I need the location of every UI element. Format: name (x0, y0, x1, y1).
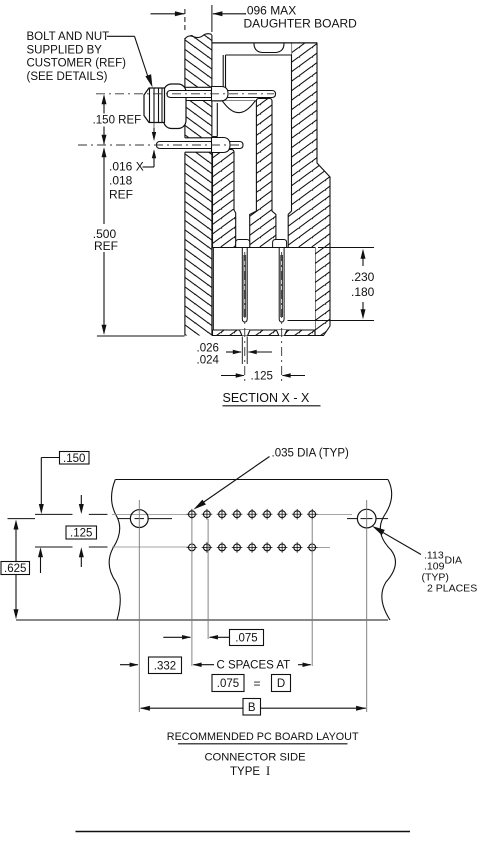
dimension .230 .180 (288, 248, 375, 321)
svg-text:=: = (254, 677, 261, 691)
pcb outline (16, 480, 395, 621)
pin tail 1 centerline (281, 252, 283, 381)
connector housing right wall (288, 43, 330, 336)
contact 1 retention foot (273, 240, 287, 248)
dimension .500 REF (93, 147, 185, 336)
svg-text:CUSTOMER (REF): CUSTOMER (REF) (27, 58, 127, 70)
svg-text:SECTION X - X: SECTION X - X (223, 391, 310, 405)
dimension .625 (1, 520, 30, 620)
svg-text:.024: .024 (197, 355, 220, 367)
dimension .016 x .018 REF (109, 128, 156, 202)
row 1 centerline (35, 513, 352, 515)
svg-text:.332: .332 (154, 660, 176, 672)
svg-text:CONNECTOR SIDE: CONNECTOR SIDE (204, 751, 305, 763)
caption RECOMMENDED PC BOARD LAYOUT (167, 731, 359, 744)
svg-text:.075: .075 (217, 678, 239, 690)
dimension .125 pin spacing (221, 371, 305, 383)
mounting hole centerline (8, 518, 389, 520)
dimension .125 rows (38, 495, 97, 573)
svg-text:RECOMMENDED PC BOARD LAYOUT: RECOMMENDED PC BOARD LAYOUT (167, 731, 359, 743)
caption TYPE I (230, 764, 270, 778)
svg-text:REF: REF (109, 188, 133, 202)
svg-text:.096 MAX: .096 MAX (244, 4, 297, 18)
dimension .332 and C SPACES AT (120, 657, 312, 674)
svg-text:REF: REF (94, 239, 118, 253)
contact spring dome (222, 101, 255, 113)
pin tail 2 centerline (244, 252, 246, 381)
connector housing front column (213, 149, 236, 247)
svg-text:.150 REF: .150 REF (93, 115, 142, 127)
dimension .075 hole pitch (163, 630, 263, 646)
svg-text:SUPPLIED BY: SUPPLIED BY (27, 44, 103, 56)
hole extension lines (192, 519, 312, 666)
svg-text:.018: .018 (109, 174, 133, 188)
connector housing top band (212, 43, 317, 95)
label .035 DIA (TYP) (194, 448, 350, 510)
svg-text:.016 X: .016 X (109, 160, 144, 174)
daughter board strip (184, 34, 213, 336)
svg-text:.035 DIA (TYP): .035 DIA (TYP) (272, 448, 350, 460)
svg-text:(SEE DETAILS): (SEE DETAILS) (27, 71, 108, 83)
svg-text:.150: .150 (63, 453, 85, 465)
label bolt and nut (27, 31, 153, 88)
bolt collar washer (164, 84, 186, 129)
svg-text:.230: .230 (351, 270, 375, 284)
mounting hole right (357, 500, 376, 712)
bottom border line (76, 831, 411, 833)
contact 2 pin tail (242, 248, 247, 323)
mounting hole left (130, 500, 148, 712)
dimension .150 REF (93, 94, 142, 144)
contact 2 horizontal pin (157, 142, 244, 149)
svg-text:2 PLACES: 2 PLACES (427, 583, 477, 595)
dimension .096 MAX DAUGHTER BOARD (151, 4, 358, 33)
contact holes row 2 (187, 542, 318, 553)
svg-text:D: D (277, 678, 285, 690)
svg-text:.125: .125 (70, 528, 92, 540)
contact 1 pin tail (279, 248, 284, 323)
svg-text:.625: .625 (4, 563, 26, 575)
svg-text:I: I (266, 764, 270, 778)
title SECTION X - X (223, 391, 321, 406)
svg-text:DAUGHTER BOARD: DAUGHTER BOARD (244, 17, 358, 31)
dimension .075 = D (212, 675, 291, 692)
svg-text:.026: .026 (197, 343, 219, 355)
contact 2 retention foot (236, 240, 250, 248)
contact 2 sleeve (212, 138, 231, 153)
svg-text:C SPACES AT: C SPACES AT (217, 660, 291, 672)
contact 2 centerline (78, 144, 241, 146)
svg-text:TYPE: TYPE (230, 766, 260, 778)
hex nut (144, 88, 165, 139)
housing seat step (213, 101, 257, 137)
connector housing bottom wall (213, 330, 316, 336)
contact 1 horizontal pin (167, 91, 276, 98)
svg-text:.075: .075 (235, 633, 257, 645)
svg-text:.125: .125 (251, 371, 273, 383)
svg-text:BOLT AND NUT: BOLT AND NUT (27, 31, 110, 43)
label .113 .109 DIA (TYP) 2 PLACES (372, 526, 477, 595)
dimension .026 .024 pin width (197, 337, 273, 367)
connector cavity (213, 248, 315, 331)
dimension B (140, 699, 366, 716)
row 2 centerline (35, 546, 330, 548)
contact 1 centerline (96, 93, 274, 95)
svg-text:.180: .180 (351, 285, 375, 299)
dimension .150 (39, 452, 89, 515)
svg-text:DIA: DIA (445, 555, 463, 567)
connector housing middle divider (250, 99, 276, 248)
contact holes row 1 (187, 509, 318, 520)
svg-text:B: B (248, 702, 256, 714)
contact 1 sleeve (212, 87, 229, 101)
